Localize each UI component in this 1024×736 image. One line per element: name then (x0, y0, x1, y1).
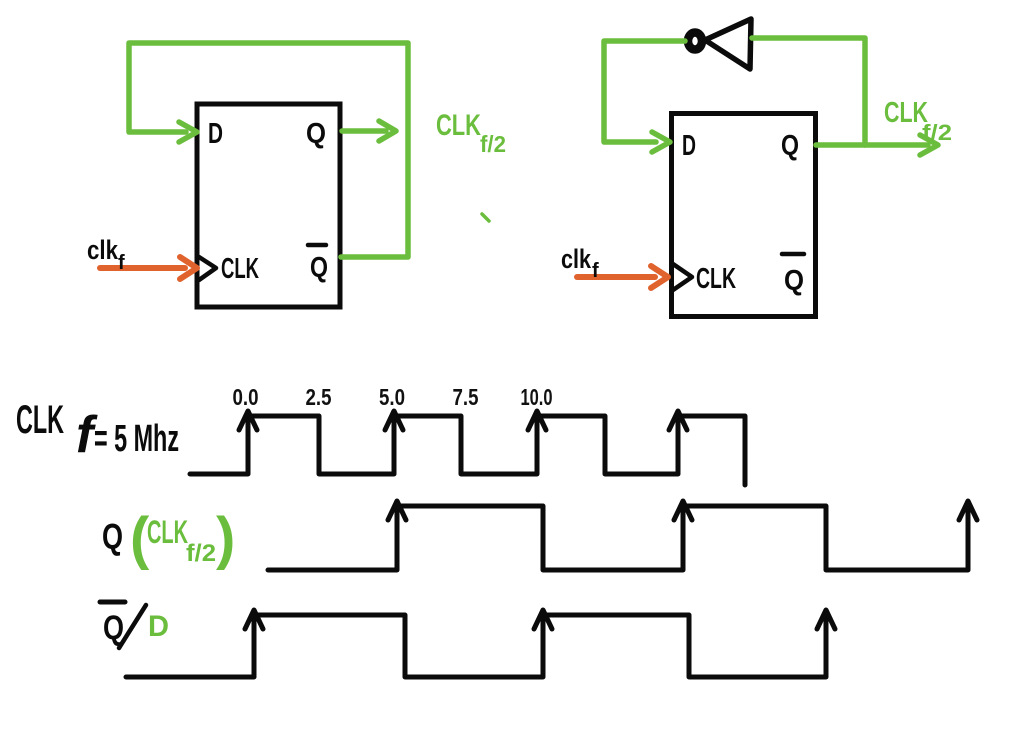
waveform CLK trace (190, 416, 745, 485)
wire: U2 Q output up to inverter input (green) (752, 38, 865, 145)
svg-text:5.0: 5.0 (379, 384, 405, 410)
net label CLKf/2 (right circuit, green) (884, 97, 952, 145)
pin label Q (U1) (306, 118, 326, 150)
waveform label CLK f=5Mhz (16, 398, 179, 464)
svg-text:Q: Q (781, 130, 799, 162)
svg-text:Q: Q (306, 118, 326, 150)
svg-text:D: D (208, 118, 223, 150)
waveform label Q (CLKf/2) (102, 506, 235, 571)
svg-text:f/2: f/2 (186, 540, 216, 567)
svg-text:CLK: CLK (221, 253, 259, 285)
svg-text:clk: clk (87, 235, 119, 265)
svg-text:Q: Q (784, 265, 804, 297)
waveform Q trace (268, 506, 968, 570)
svg-text:): ) (216, 506, 235, 571)
flip-flop U1 body (197, 104, 340, 307)
svg-text:CLK: CLK (696, 263, 736, 295)
pin clock chevron (U1) (199, 257, 216, 280)
svg-text:f: f (592, 260, 599, 282)
svg-text:D: D (148, 610, 169, 643)
wire: clk_f input arrow into U1 CLK (orange) (100, 257, 197, 279)
arrowheads on Q rising edges (388, 501, 977, 520)
arrowheads on CLK rising edges (239, 411, 687, 430)
svg-text:f/2: f/2 (480, 131, 506, 157)
svg-text:0.0: 0.0 (233, 384, 259, 410)
svg-text:= 5 Mhz: = 5 Mhz (94, 418, 179, 460)
pin label Q-bar (U2) (782, 254, 804, 297)
svg-text:Q: Q (102, 516, 123, 557)
wire: inverter output to U2 D input (green) (604, 41, 685, 152)
svg-text:Q: Q (310, 252, 328, 284)
wire: U1 Q output arrow (green) (342, 121, 396, 141)
waveform Q-bar/D trace (126, 615, 826, 677)
inverter U3 bubble (688, 33, 702, 50)
svg-text:10.0: 10.0 (521, 384, 553, 410)
svg-text:clk: clk (561, 244, 592, 274)
svg-text:CLK: CLK (436, 109, 481, 142)
wire: clk_f input arrow into U2 CLK (orange) (577, 266, 668, 288)
pin label D (U2) (682, 130, 696, 162)
pin label CLK (U1) (221, 253, 259, 285)
time axis labels (233, 384, 553, 410)
arrowheads on Q-bar/D rising edges (245, 610, 835, 629)
inverter U3 triangle (705, 19, 751, 69)
svg-text:D: D (682, 130, 696, 162)
flip-flop U2 body (672, 114, 816, 317)
svg-text:CLK: CLK (16, 398, 64, 442)
svg-text:f/2: f/2 (922, 120, 952, 145)
svg-text:2.5: 2.5 (306, 384, 332, 410)
wire: U1 Q-bar feedback to D input (green) (129, 43, 408, 257)
net label clk_f (left) (87, 235, 125, 274)
wire: U2 Q output arrow (green) (816, 135, 938, 155)
net label clk_f (right) (561, 244, 599, 282)
pin label Q-bar (U1) (308, 245, 328, 284)
pin label D (U1) (208, 118, 223, 150)
net label CLKf/2 (left circuit, green) (436, 109, 506, 157)
svg-text:7.5: 7.5 (453, 384, 479, 410)
stray green tick mark (482, 214, 489, 221)
svg-text:f: f (118, 252, 125, 274)
pin label Q (U2) (781, 130, 799, 162)
pin clock chevron (U2) (673, 264, 692, 290)
svg-text:CLK: CLK (147, 514, 188, 550)
pin label CLK (U2) (696, 263, 736, 295)
waveform label Q-bar / D (100, 602, 169, 648)
